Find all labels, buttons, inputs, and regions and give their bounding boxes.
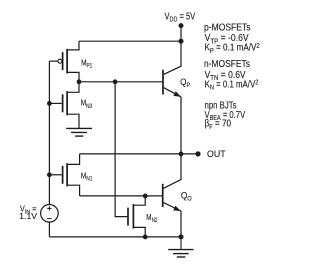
svg-text:p-MOSFETs: p-MOSFETs — [204, 22, 251, 33]
svg-text:MN2: MN2 — [146, 212, 158, 224]
svg-text:MN1: MN1 — [81, 170, 93, 182]
svg-text:MN3: MN3 — [81, 98, 93, 110]
svg-text:QP: QP — [180, 77, 190, 89]
svg-text:MP1: MP1 — [81, 58, 93, 70]
svg-text:OUT: OUT — [207, 149, 226, 159]
svg-text:VDD = 5V: VDD = 5V — [165, 11, 196, 23]
svg-text:βF = 70: βF = 70 — [205, 119, 232, 131]
svg-text:n-MOSFETs: n-MOSFETs — [204, 59, 250, 70]
svg-text:QO: QO — [181, 191, 192, 203]
svg-text:1.1V: 1.1V — [19, 212, 38, 221]
